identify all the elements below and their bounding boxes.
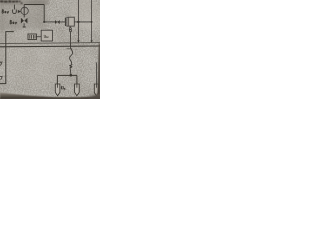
diode bowtie D1 bbox=[21, 18, 28, 24]
left edge glyph y bbox=[0, 61, 2, 65]
wire right corner down bbox=[43, 5, 45, 23]
wire vertical from top at x78 bbox=[77, 0, 79, 22]
label Rly bbox=[61, 86, 66, 90]
coil blob below U1 bbox=[69, 26, 71, 31]
labelled box Shv bbox=[41, 30, 52, 41]
plug P2 bbox=[75, 84, 80, 96]
shadow band bottom bbox=[0, 92, 40, 96]
shadow band right edge bbox=[96, 42, 100, 99]
bus line lower bbox=[0, 45, 100, 48]
wire below diode with end blob bbox=[23, 23, 25, 26]
wire down to bus with arrowhead bbox=[77, 22, 79, 41]
wire vertical from top at x91 bbox=[91, 0, 93, 41]
wavy wire down from U1 bbox=[70, 32, 73, 76]
wire to plug P3 bbox=[96, 63, 98, 85]
capacitor bar at U1 input bbox=[64, 18, 66, 26]
wire rail right segment bbox=[74, 21, 91, 23]
junction node A bbox=[43, 21, 45, 23]
plug P1 bbox=[55, 84, 60, 96]
wire bottom tee bbox=[57, 75, 77, 84]
wire top horizontal bbox=[24, 4, 44, 6]
junction node C bbox=[70, 74, 73, 77]
lamp symbol at transistor input bbox=[13, 5, 17, 14]
arrow into transistor bbox=[18, 10, 21, 13]
junction node B bbox=[77, 21, 79, 23]
diode bowtie D2 on rail bbox=[55, 20, 60, 24]
label Bav (lower) bbox=[10, 20, 17, 24]
plug P3 bbox=[94, 84, 98, 96]
wire vertical through tube bbox=[23, 5, 25, 18]
paper background bbox=[0, 0, 100, 99]
bus line upper bbox=[0, 42, 100, 45]
wire rail left segment bbox=[44, 21, 65, 23]
left edge glyph 7 bbox=[0, 76, 2, 80]
wire R1 to box bbox=[36, 36, 41, 38]
label Bav (upper) bbox=[2, 10, 9, 14]
resistor hatched box R1 bbox=[28, 34, 36, 40]
transistor tube V1 bbox=[21, 7, 28, 14]
top cut-off text remnants bbox=[0, 0, 23, 4]
component box U1 bbox=[67, 17, 74, 26]
enclosure box left bbox=[0, 32, 14, 84]
